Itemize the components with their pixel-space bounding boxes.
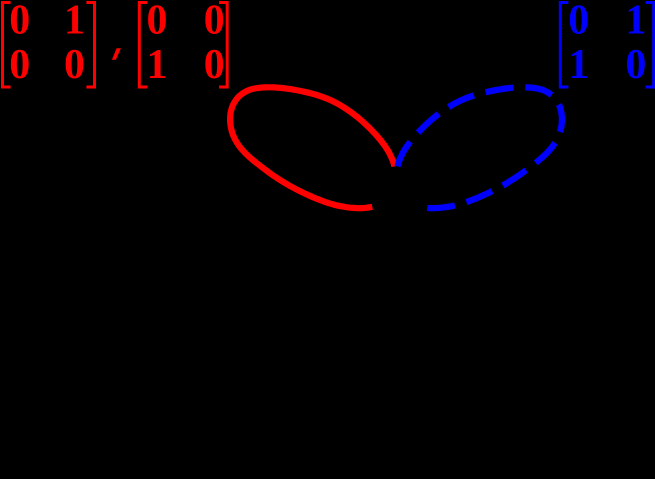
svg-text:1: 1 <box>625 0 646 44</box>
svg-text:0: 0 <box>204 42 225 88</box>
svg-text:1: 1 <box>568 42 589 88</box>
comma separator <box>112 48 121 60</box>
svg-text:1: 1 <box>147 42 168 88</box>
svg-text:0: 0 <box>64 42 85 88</box>
svg-text:0: 0 <box>9 0 30 44</box>
red matrix right bracket <box>86 1 96 89</box>
red matrix right bracket <box>219 1 229 89</box>
blue matrix left bracket <box>559 1 569 89</box>
svg-text:0: 0 <box>204 0 225 44</box>
red matrix left bracket <box>138 1 148 89</box>
red solid loop <box>230 87 394 208</box>
svg-text:0: 0 <box>568 0 589 44</box>
red matrix left bracket <box>1 1 11 89</box>
svg-text:0: 0 <box>147 0 168 44</box>
blue matrix right bracket <box>646 1 655 89</box>
svg-text:0: 0 <box>625 42 646 88</box>
blue dashed loop <box>398 87 562 208</box>
svg-text:0: 0 <box>9 42 30 88</box>
svg-text:1: 1 <box>64 0 85 44</box>
